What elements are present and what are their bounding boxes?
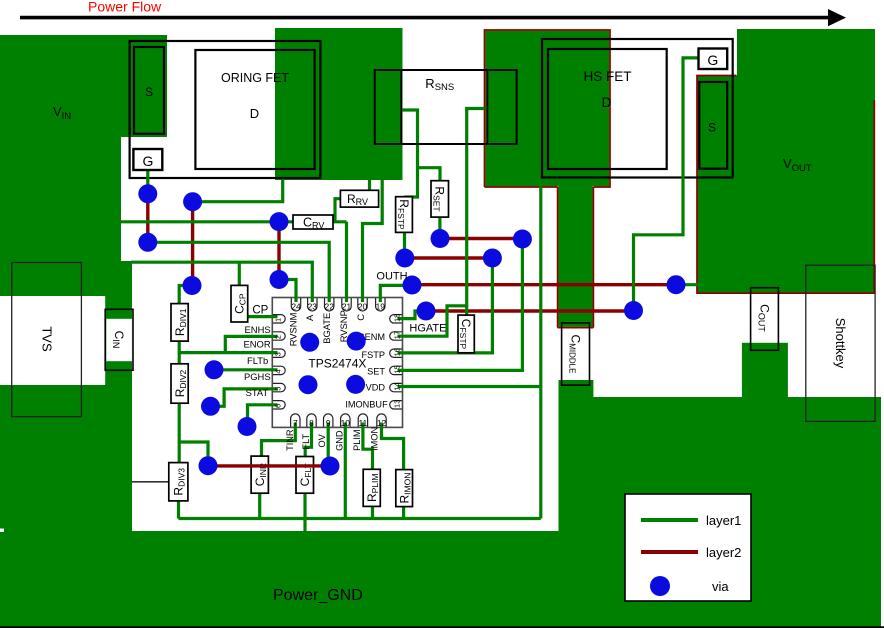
svg-text:IMON: IMON: [370, 427, 380, 451]
wire OUT block to pin20 C: [363, 180, 383, 303]
wire pin6 STAT to via N: [248, 405, 278, 427]
wire pin5 PGHS to via R: [211, 389, 278, 406]
transistor ORING FET outline: [130, 41, 321, 178]
wire black stub to RDIV3: [132, 481, 169, 483]
wire copper column HS drain to CMIDDLE: [558, 186, 592, 327]
pin 3: [273, 349, 285, 357]
via A ORING gate: [138, 184, 157, 203]
wire ORING G pad to via A: [146, 169, 149, 194]
svg-text:22: 22: [325, 301, 335, 311]
wire OUT block to via B: [193, 180, 283, 202]
wire SENM sense: HS block to CFSTP and pin17: [467, 109, 485, 316]
wire RDIV1 to RDIV2, ENHS ENOR taps: [178, 341, 181, 364]
svg-text:11: 11: [359, 418, 368, 428]
via K FSTP: [483, 249, 502, 268]
pin 23: [308, 298, 317, 311]
wire via K down to pin16 FSTP: [398, 258, 493, 353]
wire layer2 via O to via P (over CINR CFLT): [208, 464, 330, 467]
pin 4: [273, 366, 285, 374]
svg-text:BGATE: BGATE: [321, 313, 332, 344]
svg-text:TVS: TVS: [39, 326, 54, 352]
pin 2: [273, 332, 285, 340]
pin 16: [390, 349, 402, 357]
wire pin19 to OUTH via L: [380, 285, 412, 302]
bottom border line: [0, 626, 884, 628]
svg-text:S: S: [708, 121, 716, 135]
capacitor CMIDDLE box: [562, 323, 590, 385]
via F BGATE: [138, 233, 157, 252]
svg-text:Power_GND: Power_GND: [273, 587, 363, 604]
svg-text:HGATE: HGATE: [409, 323, 446, 335]
svg-text:19: 19: [376, 301, 386, 311]
wire layer2 via A to via F (ORING gate): [146, 194, 149, 243]
wire RPLIM bottom to bus: [371, 506, 374, 518]
diode Shottkey box: [806, 265, 875, 421]
svg-text:10: 10: [341, 418, 351, 428]
pin 15: [390, 366, 402, 374]
svg-text:20: 20: [358, 301, 368, 311]
wire layer2 via B to via D (OUT to divider): [191, 202, 194, 286]
svg-text:FLTb: FLTb: [247, 355, 268, 366]
node VOUT copper plane: [697, 29, 875, 294]
resistor RIMON box: [396, 470, 413, 507]
svg-text:RVSNP: RVSNP: [338, 310, 349, 342]
svg-text:ENHS: ENHS: [245, 324, 271, 335]
pin 11: [358, 414, 367, 427]
svg-text:STAT: STAT: [246, 387, 269, 398]
svg-text:GND: GND: [335, 430, 345, 451]
via VOUT: [667, 275, 686, 294]
via P OV: [321, 457, 340, 476]
capacitor CRV box: [293, 215, 333, 229]
wire layer2 via C to via E (RVSNM): [277, 222, 280, 280]
ORING FET G pad box: [133, 149, 162, 170]
svg-text:D: D: [250, 106, 259, 121]
svg-text:17: 17: [393, 331, 402, 339]
svg-text:FSTP: FSTP: [362, 350, 385, 360]
wire pin11 PLIM to RPLIM top: [363, 423, 373, 470]
svg-text:layer1: layer1: [706, 513, 741, 528]
svg-text:Power Flow: Power Flow: [88, 0, 162, 15]
svg-text:OUTH: OUTH: [376, 270, 407, 282]
via H RSET: [431, 229, 450, 248]
legend layer2 line: [641, 550, 698, 554]
pin 22: [325, 298, 334, 311]
via E RVSNM: [270, 270, 289, 289]
pin 20: [358, 298, 367, 311]
via R PGHS: [201, 397, 220, 416]
via B OUT node: [183, 192, 202, 211]
svg-text:TPS2474X: TPS2474X: [308, 357, 366, 371]
via J RFSTP: [395, 249, 414, 268]
svg-text:ORING FET: ORING FET: [221, 71, 289, 85]
pin 17: [390, 332, 402, 340]
svg-text:PGHS: PGHS: [244, 371, 271, 382]
node MID copper block (RSNS to HS FET drain): [485, 31, 609, 187]
resistor RFSTP box: [396, 197, 413, 233]
svg-text:2: 2: [274, 335, 283, 339]
capacitor CCP box: [231, 285, 248, 322]
capacitor CFSTP box: [458, 315, 474, 353]
capacitor CINR box: [251, 456, 268, 493]
via M HGATE: [417, 302, 436, 321]
layer2 outline of MID block: [485, 30, 611, 187]
svg-text:15: 15: [393, 365, 402, 373]
legend via: [650, 576, 670, 596]
svg-text:FLT: FLT: [301, 433, 311, 449]
svg-text:VDD: VDD: [366, 383, 386, 393]
svg-text:14: 14: [393, 382, 402, 390]
arrow Power Flow: [20, 16, 836, 20]
svg-text:24: 24: [291, 301, 301, 311]
wire RDIV2 to RDIV3, via O tap: [178, 403, 181, 462]
pin 8: [307, 414, 316, 427]
wire pin10 GND to bus: [344, 423, 347, 519]
svg-text:G: G: [143, 153, 154, 169]
wire RSET bottom to via H: [438, 217, 441, 238]
resistor RDIV2 box: [171, 364, 188, 403]
wire layer2 HGATE via M to via at HS gate: [426, 309, 634, 312]
wire CRV net: plane to CRV to RRV and pin21 RVSNP: [121, 220, 347, 223]
pin 1: [273, 315, 285, 323]
wire layer2 OUTH via L to VOUT via: [412, 283, 676, 286]
via IC pad 3: [299, 375, 318, 394]
ground plane Power_GND: [0, 380, 881, 628]
pin 9: [324, 414, 333, 427]
via N STAT: [238, 417, 257, 436]
wire via E to pin24 RVSNM: [279, 280, 296, 303]
svg-text:21: 21: [342, 301, 352, 311]
ORING FET S pad box: [134, 47, 164, 134]
pin 5: [273, 383, 285, 391]
HS FET D pad box: [548, 49, 667, 169]
svg-text:9: 9: [326, 418, 331, 428]
pin 24: [291, 298, 300, 311]
capacitor COUT box: [751, 288, 779, 351]
svg-text:8: 8: [309, 418, 314, 428]
svg-text:RVSNM: RVSNM: [288, 312, 299, 346]
wire RDIV3 bottom to bus: [177, 501, 180, 519]
svg-text:18: 18: [393, 314, 402, 322]
wire bottom ground bus: [179, 517, 541, 520]
HS FET S pad box: [699, 82, 727, 169]
svg-text:5: 5: [274, 387, 283, 391]
resistor RSNS box: [375, 70, 517, 144]
ORING FET D pad box: [195, 50, 314, 169]
plane gap (white band across VIN plane at TVS/CIN): [0, 296, 105, 385]
svg-text:23: 23: [308, 301, 318, 311]
layer2 outline of CMIDDLE column: [558, 187, 594, 328]
ground plane left edge fill: [0, 528, 132, 534]
wire COUT pad column to ground plane: [742, 343, 788, 399]
svg-text:TINR: TINR: [285, 429, 295, 451]
via IC pad 4: [346, 375, 365, 394]
svg-text:G: G: [707, 52, 718, 68]
svg-text:S: S: [145, 85, 153, 99]
wire via D to RDIV1 top: [179, 286, 192, 304]
svg-text:CP: CP: [252, 305, 268, 317]
node OUT copper block (ORING FET drain to RSNS): [275, 28, 403, 180]
wire layer2 via J to via K (FSTP): [405, 256, 493, 259]
resistor RDIV3 box: [169, 463, 188, 501]
svg-text:ENOR: ENOR: [244, 339, 271, 350]
via C CRV line: [270, 212, 289, 231]
wire via at HS gate up to G pad: [634, 58, 699, 311]
resistor RRV box: [340, 190, 378, 207]
resistor RPLIM box: [363, 469, 380, 506]
svg-text:PLIM: PLIM: [352, 429, 362, 450]
wire pin7 TINR to CINR top: [262, 423, 296, 456]
wire VOUT via to VOUT plane: [676, 283, 698, 286]
resistor RDIV1 box: [171, 304, 188, 342]
pin 12: [377, 414, 386, 427]
svg-text:SET: SET: [367, 366, 385, 376]
via D divider top: [183, 276, 202, 295]
svg-text:1: 1: [274, 318, 283, 322]
pin 21: [342, 298, 351, 311]
svg-text:4: 4: [274, 369, 283, 373]
transistor HS FET outline: [542, 39, 733, 178]
wire via I down to pin15 SET: [398, 239, 523, 370]
via L OUTH: [403, 276, 422, 295]
wire CINR bottom to bus: [258, 493, 261, 518]
wire VDD: HS block bottom, pin14 tap, down to bus: [539, 186, 542, 519]
via IC pad 2: [347, 332, 366, 351]
plane notch left edge: [0, 529, 4, 533]
legend box: [625, 494, 751, 601]
layer2 outline of VOUT plane: [697, 76, 874, 294]
via HS gate: [624, 301, 643, 320]
capacitor CIN box: [105, 309, 133, 370]
svg-text:12: 12: [377, 418, 387, 428]
wire RSNS left pad to RFSTP and RSET: [399, 110, 418, 197]
wire pin9 OV to via P: [327, 423, 330, 467]
wire pin12 IMON to RIMON top: [382, 423, 404, 470]
svg-text:IMONBUF: IMONBUF: [345, 400, 388, 410]
svg-text:Shottkey: Shottkey: [833, 318, 848, 369]
wire via Q to pin4 FLTb: [214, 368, 278, 371]
svg-text:OV: OV: [317, 433, 327, 447]
wire pin8 FLT to CFLT top: [305, 423, 311, 456]
pin 10: [341, 414, 350, 427]
HS FET G pad box: [699, 49, 728, 70]
svg-text:C: C: [355, 314, 366, 321]
pin 7: [291, 414, 300, 427]
wire layer2 via H to via I (SET): [440, 237, 522, 240]
node VIN copper plane: [0, 35, 167, 528]
capacitor CFLT box: [296, 457, 314, 494]
wire CCP to pin1 CP: [248, 315, 278, 318]
svg-text:13: 13: [393, 400, 402, 408]
svg-text:6: 6: [274, 404, 283, 408]
svg-text:7: 7: [293, 418, 298, 428]
via O divider tap: [199, 456, 218, 475]
legend layer1 line: [641, 518, 698, 522]
resistor RSET box: [431, 181, 449, 217]
pin 6: [273, 401, 285, 409]
diode TVS box: [12, 263, 82, 417]
wire pin18 HGATE to via M: [398, 311, 427, 319]
pin 19: [376, 298, 385, 311]
svg-text:16: 16: [393, 348, 402, 356]
via I SET: [513, 230, 532, 249]
svg-text:3: 3: [274, 352, 283, 356]
wire VIN plane to pin23 A, CCP tap: [131, 262, 312, 302]
svg-text:A: A: [304, 314, 315, 321]
svg-text:HS FET: HS FET: [583, 69, 631, 84]
svg-text:via: via: [712, 579, 729, 594]
pin 13: [390, 401, 402, 409]
wire CFLT bottom to bus and ground plane: [303, 493, 306, 532]
pin 14: [390, 383, 402, 391]
op-amp U1 TPS2474X body: [272, 298, 402, 428]
svg-text:D: D: [602, 95, 612, 110]
via Q FLTb: [205, 360, 224, 379]
pin 18: [390, 315, 402, 323]
wire RFSTP bottom to via J: [403, 232, 406, 258]
via IC pad 1: [300, 333, 319, 352]
wire RIMON bottom to bus: [402, 507, 405, 519]
svg-text:layer2: layer2: [706, 545, 741, 560]
wire OUT block to RRV top: [368, 180, 371, 191]
wire via F to pin22 BGATE: [148, 242, 329, 302]
